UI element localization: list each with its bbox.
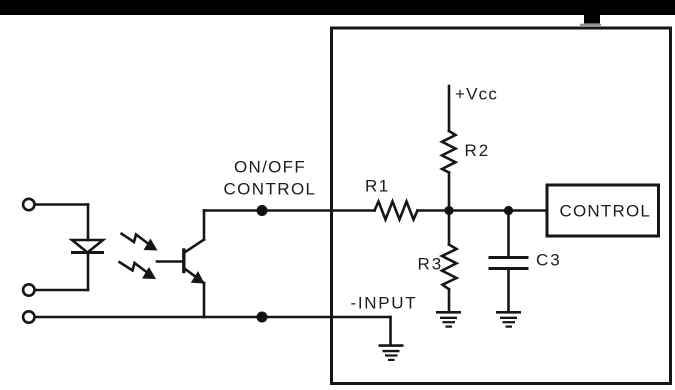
svg-text:R2: R2 (465, 141, 491, 160)
svg-text:C3: C3 (536, 251, 562, 270)
svg-text:R1: R1 (365, 177, 390, 196)
svg-text:CONTROL: CONTROL (224, 180, 317, 199)
svg-text:+Vcc: +Vcc (455, 85, 498, 104)
svg-text:ON/OFF: ON/OFF (234, 158, 306, 177)
svg-text:-INPUT: -INPUT (351, 294, 418, 313)
svg-text:CONTROL: CONTROL (560, 202, 652, 221)
svg-text:R3: R3 (418, 255, 444, 274)
